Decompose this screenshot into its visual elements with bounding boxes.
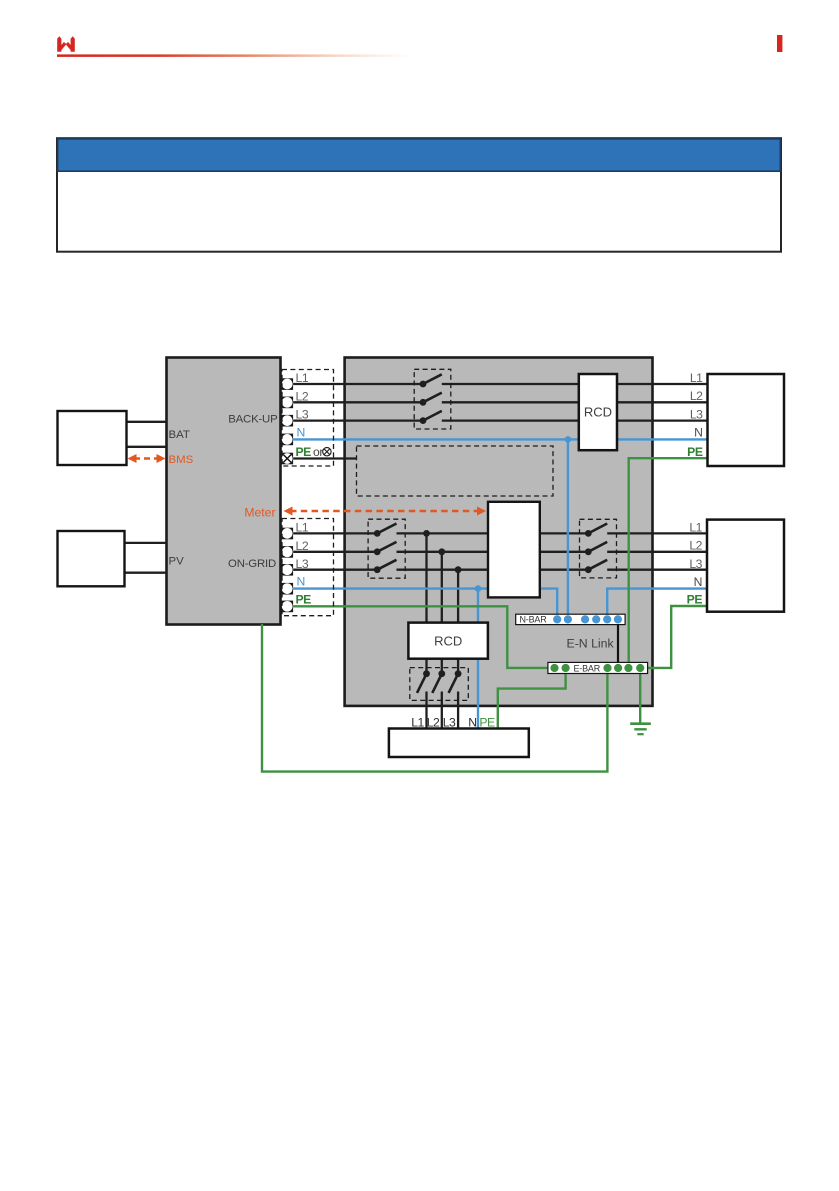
ground xyxy=(630,724,651,735)
dashed note rect xyxy=(357,446,554,496)
svg-text:ON-GRID: ON-GRID xyxy=(228,558,276,570)
svg-text:RCD: RCD xyxy=(584,405,612,420)
terminal BACK-UP N xyxy=(282,434,294,446)
svg-text:L2: L2 xyxy=(296,539,309,553)
Meter link arrow xyxy=(284,507,487,516)
RCD U2 (grid) xyxy=(408,623,488,659)
terminal BACK-UP PE (crossed) xyxy=(282,453,294,465)
terminal BACK-UP L3 xyxy=(282,415,294,427)
wire PV-inverter bottom xyxy=(124,572,166,574)
symbol crossed-circle in label xyxy=(323,448,331,456)
node L2 junction xyxy=(438,548,445,555)
blue neutral wires xyxy=(293,439,707,728)
svg-text:L3: L3 xyxy=(296,408,309,422)
wire BAT-inverter bottom xyxy=(126,446,166,448)
breaker Q2 on-grid left 3-pole xyxy=(374,524,397,574)
wire ON-GRID L2 xyxy=(293,551,377,553)
grid box xyxy=(389,729,529,758)
PV box xyxy=(58,531,125,586)
svg-text:PV: PV xyxy=(169,556,185,568)
wire BACK-UP L1 xyxy=(293,383,423,385)
wire PE ON-GRID to E-BAR xyxy=(293,606,549,668)
dashed group ON-GRID terminals xyxy=(282,519,334,616)
header rule gradient xyxy=(57,54,415,57)
wire L1 below switch to grid box xyxy=(425,692,427,729)
wire L3 below switch to grid box xyxy=(457,692,459,729)
meter box xyxy=(488,502,540,598)
wire inverter ground to E-BAR xyxy=(262,624,607,772)
on-grid terminal labels xyxy=(296,521,312,607)
svg-text:N: N xyxy=(694,425,702,439)
svg-text:PE: PE xyxy=(296,445,312,459)
wire N backup drop to N-BAR xyxy=(567,439,569,619)
wire L1 drop to RCD2 xyxy=(425,533,427,673)
wire ON-GRID L3 xyxy=(293,569,377,571)
green PE wires xyxy=(262,458,708,771)
N-BAR bus xyxy=(516,614,625,624)
E-BAR bus xyxy=(548,662,648,673)
notice box xyxy=(57,138,781,252)
svg-text:RCD: RCD xyxy=(434,633,462,648)
wire PE main loads to E-BAR xyxy=(647,606,707,668)
wire PEor stub xyxy=(293,457,356,459)
wire BACK-UP L2 xyxy=(293,401,423,403)
svg-text:PE: PE xyxy=(687,593,703,607)
svg-text:L3: L3 xyxy=(443,716,456,730)
svg-text:L2: L2 xyxy=(427,716,440,730)
svg-text:N: N xyxy=(468,716,476,730)
wire BACK-UP L3 xyxy=(293,419,423,421)
wire L2 below switch to grid box xyxy=(441,692,443,729)
svg-text:L1: L1 xyxy=(296,521,309,535)
svg-text:PE: PE xyxy=(687,445,703,459)
svg-text:N: N xyxy=(694,575,702,589)
svg-text:L3: L3 xyxy=(296,557,309,571)
inverter box xyxy=(167,358,281,625)
svg-text:BAT: BAT xyxy=(169,429,190,441)
svg-text:L2: L2 xyxy=(689,539,702,553)
svg-text:L1: L1 xyxy=(690,371,703,385)
svg-text:E-N Link: E-N Link xyxy=(567,637,615,651)
wire N drop to grid box xyxy=(477,589,479,729)
terminal BACK-UP L1 xyxy=(282,378,294,390)
main loads wire labels xyxy=(687,520,703,606)
logo W xyxy=(57,36,75,51)
svg-text:L3: L3 xyxy=(689,557,702,571)
svg-text:N: N xyxy=(297,575,305,589)
battery box xyxy=(58,411,127,465)
svg-text:or: or xyxy=(313,445,323,459)
wire L2 drop to RCD2 xyxy=(441,552,443,674)
svg-text:BACK-UP: BACK-UP xyxy=(228,413,277,425)
backup terminal labels xyxy=(296,371,324,459)
grid box wire labels xyxy=(411,716,495,730)
svg-text:BMS: BMS xyxy=(169,454,194,466)
main loads box xyxy=(707,520,784,612)
terminal ON-GRID PE xyxy=(282,601,294,613)
wire ON-GRID L1 xyxy=(293,532,377,534)
wire L3 drop to RCD2 xyxy=(457,570,459,674)
BMS link arrow xyxy=(128,454,166,463)
breaker Q4 grid 3-pole vertical xyxy=(417,670,462,693)
wire N ON-GRID to N-BAR xyxy=(293,589,557,620)
wire N BACK-UP horizontal xyxy=(293,438,707,440)
node L3 junction xyxy=(455,566,462,573)
terminal ON-GRID L1 xyxy=(282,528,294,540)
svg-text:L1: L1 xyxy=(296,371,309,385)
node N on-grid junction xyxy=(475,585,482,592)
wire ground stem xyxy=(639,673,641,722)
svg-text:L1: L1 xyxy=(689,520,702,534)
node N backup junction xyxy=(565,436,572,443)
header right red bar xyxy=(777,35,782,52)
node L1 junction xyxy=(423,530,430,537)
wire PE grid box to E-BAR xyxy=(498,673,566,728)
svg-text:L3: L3 xyxy=(690,407,703,421)
svg-text:PE: PE xyxy=(296,592,312,606)
svg-text:L2: L2 xyxy=(296,389,309,403)
distribution box xyxy=(345,358,653,706)
svg-text:L2: L2 xyxy=(690,389,703,403)
svg-text:PE: PE xyxy=(479,716,495,730)
wire N main loads to N-BAR xyxy=(607,589,707,620)
terminal ON-GRID N xyxy=(282,583,294,595)
notice header blue bar xyxy=(58,139,781,171)
breaker Q1 backup 3-pole xyxy=(420,374,442,424)
wire E-N link vertical xyxy=(617,624,619,662)
backup loads wire labels xyxy=(687,371,703,459)
svg-text:Meter: Meter xyxy=(244,505,275,519)
RCD U1 (backup) xyxy=(579,374,617,450)
wire PE backup loads to E-BAR xyxy=(629,458,708,663)
backup loads box xyxy=(708,374,785,466)
svg-text:L1: L1 xyxy=(411,716,424,730)
terminal BACK-UP L2 xyxy=(282,397,294,409)
svg-text:N: N xyxy=(297,426,305,440)
breaker Q3 on-grid right 3-pole xyxy=(585,524,607,574)
terminal ON-GRID L3 xyxy=(282,564,294,576)
wire BAT-inverter top xyxy=(126,421,166,423)
wire PV-inverter top xyxy=(124,542,166,544)
svg-text:N-BAR: N-BAR xyxy=(520,615,548,625)
svg-text:E-BAR: E-BAR xyxy=(574,663,601,673)
terminal ON-GRID L2 xyxy=(282,546,294,558)
dashed group BACK-UP terminals xyxy=(282,370,334,467)
